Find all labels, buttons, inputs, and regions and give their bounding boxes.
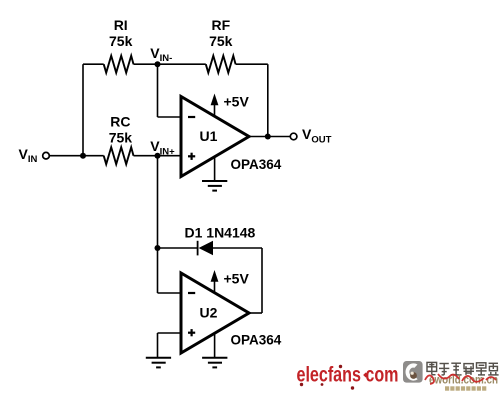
U1 +5V supply arrow [211, 94, 219, 116]
op-amp U1 plus input sign [188, 153, 195, 160]
wire: RI to node VIN- [134, 63, 158, 65]
op-amp U2 triangle [181, 273, 249, 353]
U2 ground stem (negative supply) [214, 334, 216, 358]
svg-text:75k: 75k [109, 33, 133, 49]
wire: into U2 inverting input [158, 292, 182, 294]
logo: elecfans.com wordmark [297, 363, 399, 389]
node: output junction dot [265, 134, 271, 140]
U1 ground stem [214, 157, 216, 181]
resistor RC [104, 147, 134, 164]
svg-text:U1: U1 [200, 128, 218, 144]
svg-text:RI: RI [114, 17, 128, 33]
wire: U2 output to feedback [249, 312, 262, 314]
wire: node VIN- to RF [158, 63, 206, 65]
diode D1 [198, 241, 213, 256]
wire: right vertical feedback to output [267, 64, 269, 136]
logo text: EEWorld Chinese characters (drawn) [427, 362, 499, 375]
terminal: VIN input circle [43, 152, 50, 159]
resistor RI [104, 56, 134, 73]
svg-text:VOUT: VOUT [302, 126, 332, 146]
svg-text:VIN-: VIN- [150, 45, 172, 64]
svg-text:RF: RF [211, 17, 230, 33]
wire: D1 node to diode [158, 247, 198, 249]
wire: U1 output to VOUT terminal [249, 136, 290, 138]
logo tagline: small tan characters [445, 386, 486, 390]
U2 +5V supply arrow [211, 270, 219, 292]
U1 ground symbol [202, 181, 227, 191]
op-amp U2 plus input sign [188, 329, 195, 336]
wire: U2 feedback right vertical [261, 248, 263, 313]
svg-text:VIN: VIN [19, 146, 38, 165]
svg-text:VIN+: VIN+ [150, 138, 175, 158]
U2 input ground symbol [146, 358, 171, 368]
svg-text:U2: U2 [200, 304, 218, 320]
wire: RC to U1 non-inverting input [134, 155, 182, 157]
wire: left vertical rail [82, 64, 84, 156]
node VIN- junction dot [155, 61, 161, 67]
wire: VIN+ vertical down to D1 node and U2 [157, 156, 159, 293]
svg-text:75k: 75k [209, 33, 233, 49]
wire: RF to top-right corner [236, 63, 268, 65]
wire: into U1 inverting input [158, 116, 182, 118]
wire: VIN terminal to RC [49, 155, 103, 157]
op-amp U1 minus input sign [188, 116, 195, 118]
wire: U2 non-inverting ground drop [157, 333, 159, 358]
svg-text:RC: RC [110, 114, 130, 130]
svg-text:elecfans com: elecfans com [297, 363, 399, 386]
wire: ground to U2 non-inverting input [158, 332, 182, 334]
wire: VIN- vertical drop [157, 64, 159, 117]
U2 supply ground symbol [202, 358, 227, 368]
op-amp U1 triangle [181, 97, 249, 177]
svg-text:+5V: +5V [224, 94, 250, 110]
node: D1 anode junction dot [155, 245, 161, 251]
op-amp U2 minus input sign [188, 292, 195, 294]
resistor RF [206, 56, 236, 73]
wire: diode to right drop [213, 247, 262, 249]
node: VIN junction dot [80, 153, 86, 159]
logo: red script overlay [425, 374, 496, 384]
svg-text:OPA364: OPA364 [231, 333, 282, 348]
svg-text:D1 1N4148: D1 1N4148 [185, 225, 256, 241]
svg-text:75k: 75k [109, 130, 133, 146]
svg-text:OPA364: OPA364 [231, 157, 282, 172]
node VIN+ junction dot [155, 153, 161, 159]
svg-text:+5V: +5V [224, 271, 250, 287]
wire: top rail left segment [83, 63, 104, 65]
terminal: VOUT output circle [290, 133, 297, 140]
logo: EEWorld grey rounded icon [403, 361, 423, 383]
